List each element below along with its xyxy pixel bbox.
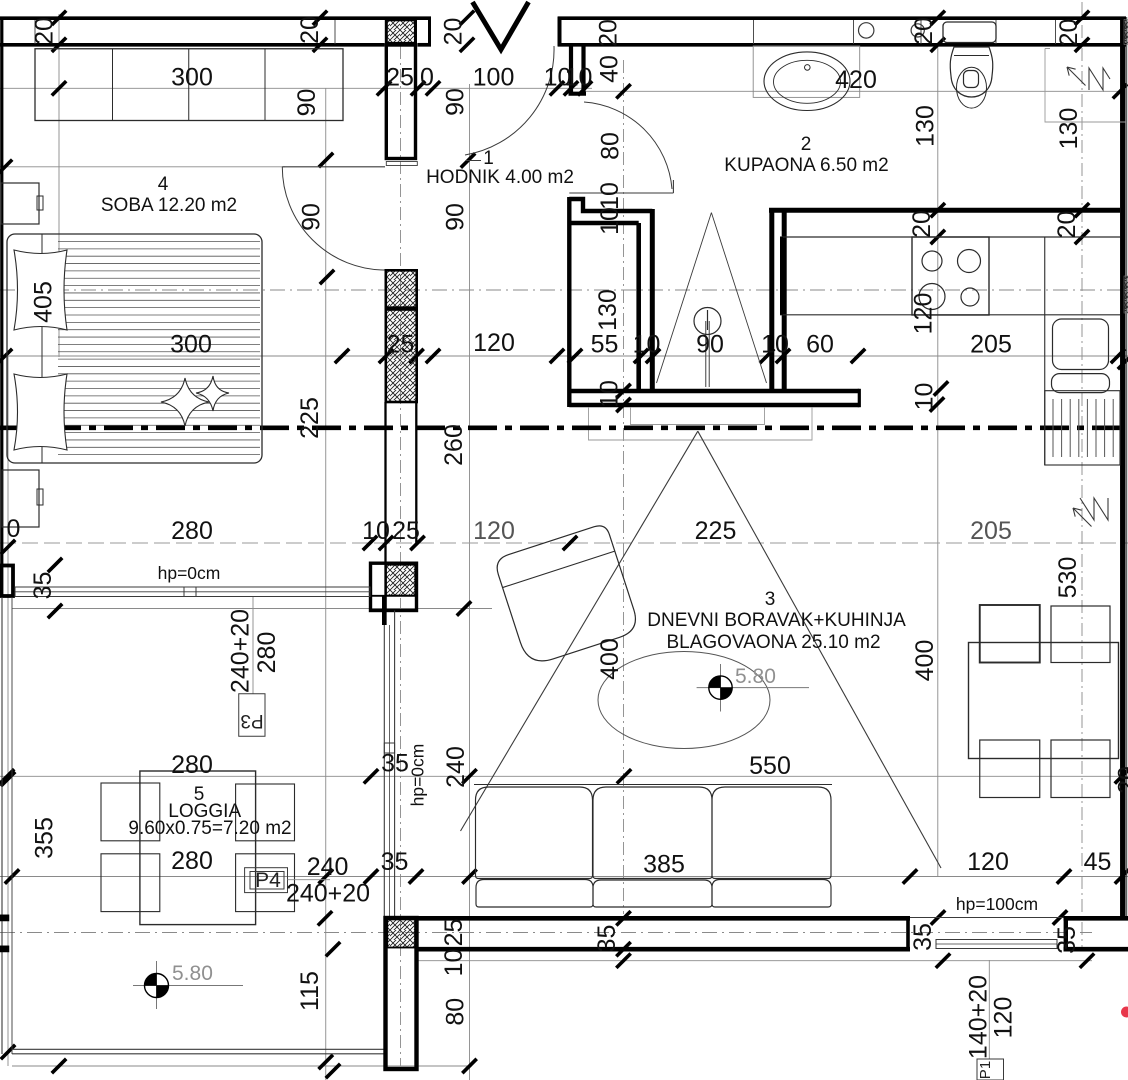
loggia bottom double line	[12, 1048, 384, 1050]
stove burner 3	[919, 284, 945, 310]
ticks dim y=776	[0, 769, 14, 783]
bathroom bottom wall	[769, 208, 1120, 213]
ticks wall 20 bathroom bottom	[931, 203, 945, 217]
dining chair 3	[980, 740, 1040, 798]
svg-text:60: 60	[806, 331, 834, 359]
entrance door swing arc	[465, 46, 554, 155]
svg-text:10: 10	[596, 207, 624, 235]
svg-text:20: 20	[1053, 211, 1081, 239]
shower door triangle	[657, 213, 767, 383]
loggia chair 2	[236, 784, 295, 841]
loggia right window vertical	[383, 611, 385, 917]
loggia corner column block	[371, 563, 417, 610]
svg-text:3: 3	[765, 589, 776, 610]
wall column hatched block 2	[386, 310, 417, 403]
svg-text:P3: P3	[240, 710, 263, 731]
kitchen radiator fins	[1052, 399, 1054, 457]
loggia table	[140, 771, 256, 925]
top exterior wall outer face	[0, 16, 431, 20]
stove burner 2	[958, 250, 981, 273]
svg-text:120: 120	[910, 293, 938, 335]
svg-text:80: 80	[442, 998, 470, 1026]
left vertical dim line x=8	[7, 356, 9, 1066]
bath sink faucet	[805, 65, 811, 71]
svg-text:20: 20	[908, 210, 936, 238]
wall x=784	[782, 208, 787, 391]
bottom wall lower face	[418, 947, 910, 952]
svg-text:0: 0	[7, 515, 21, 543]
toilet bowl inner	[957, 67, 987, 108]
witness line x=937	[937, 46, 939, 877]
right wall insulation hatch mid	[1124, 276, 1128, 313]
sofa cushion 3	[712, 787, 831, 879]
loggia left edge lines	[1, 597, 3, 1054]
witness line x=325	[325, 88, 327, 1080]
label box bottom	[977, 1059, 1004, 1080]
rug ellipse	[598, 652, 770, 749]
svg-text:225: 225	[296, 397, 324, 439]
ticks dim y=543	[363, 536, 377, 550]
dim line y=543	[0, 542, 1128, 544]
centerline horizontal y=932	[0, 932, 1092, 934]
stove	[912, 237, 989, 315]
ticks dim y=88	[52, 81, 66, 95]
svg-text:P4: P4	[255, 869, 281, 892]
grid centerline vertical x=623	[623, 60, 625, 914]
loggia right window mullion	[384, 743, 394, 753]
svg-text:55: 55	[591, 331, 619, 359]
svg-text:280: 280	[253, 632, 281, 674]
svg-text:225: 225	[695, 517, 737, 545]
svg-text:355: 355	[31, 817, 59, 859]
bottom right pier	[1064, 916, 1128, 921]
svg-text:420: 420	[835, 66, 877, 94]
electric symbol top	[1067, 67, 1110, 90]
bed	[7, 234, 262, 463]
svg-text:10: 10	[596, 380, 624, 408]
view cone right line	[698, 431, 941, 868]
top wall hatched segment above column	[386, 20, 415, 44]
svg-text:45: 45	[1084, 848, 1112, 876]
svg-text:205: 205	[970, 331, 1012, 359]
dining chair 2	[1051, 606, 1110, 663]
shower left wall outer face	[650, 209, 655, 391]
svg-text:130: 130	[1055, 108, 1083, 150]
ticks dim y=876	[5, 869, 19, 883]
ticks dim y=356	[0, 349, 12, 363]
parapet band below shower lower face	[569, 403, 859, 408]
left exterior wall	[0, 17, 3, 564]
svg-text:35: 35	[909, 923, 937, 951]
svg-text:20: 20	[1114, 766, 1128, 794]
shower right wall	[769, 208, 774, 391]
kitchen counter top edge	[780, 236, 1120, 238]
witness line x=253 P3 leader	[252, 596, 254, 694]
svg-text:25: 25	[386, 64, 414, 92]
svg-text:HODNIK 4.00 m2: HODNIK 4.00 m2	[426, 167, 574, 188]
window hp=100 sill lines	[910, 917, 1064, 919]
svg-text:400: 400	[911, 640, 939, 682]
svg-text:10: 10	[911, 383, 939, 411]
ticks wall 20 top	[52, 11, 66, 25]
view cone left line	[461, 431, 698, 831]
ticks left dim x=8	[1, 540, 15, 554]
nightstand bottom	[2, 470, 39, 527]
loggia bottom column	[386, 918, 417, 1069]
sofa cushion 2	[593, 787, 712, 879]
loggia chair 4	[236, 854, 295, 912]
svg-text:20: 20	[910, 17, 938, 45]
svg-text:DNEVNI BORAVAK+KUHINJA: DNEVNI BORAVAK+KUHINJA	[647, 610, 906, 631]
svg-text:10: 10	[440, 949, 468, 977]
svg-text:280: 280	[171, 751, 213, 779]
sofa seat 2	[593, 880, 712, 907]
svg-text:120: 120	[990, 997, 1018, 1039]
kitchen counter front edge	[780, 314, 1120, 316]
main dim line y=356	[0, 355, 1128, 357]
svg-text:90: 90	[696, 331, 724, 359]
svg-text:10: 10	[362, 517, 390, 545]
svg-text:25: 25	[387, 331, 415, 359]
vent circle 1 in wall	[859, 23, 874, 38]
armchair	[493, 523, 640, 667]
dim line y=961 bottom sill	[418, 960, 1092, 962]
dim line y=88 top	[0, 87, 592, 89]
ticks wall 35 bottom	[318, 911, 332, 925]
toilet flush	[964, 71, 979, 88]
ticks loggia bottom dim	[52, 1059, 66, 1073]
vent circle 2 in wall	[911, 24, 924, 37]
svg-text:120: 120	[473, 517, 515, 545]
dim line y=91 bathroom	[580, 90, 1122, 92]
svg-text:300: 300	[171, 64, 213, 92]
red watermark dot	[1121, 1007, 1128, 1018]
parapet band end cap	[858, 389, 861, 407]
svg-text:260: 260	[440, 424, 468, 466]
wall column lower double line	[384, 402, 386, 625]
window hp=100 glazing	[936, 940, 1057, 949]
soba door swing arc	[282, 167, 385, 270]
wardrobe	[35, 49, 343, 121]
witness line x=59	[58, 14, 60, 357]
dim line y=1066 loggia bottom	[12, 1065, 472, 1067]
loggia edge dash bar 2	[0, 946, 9, 952]
right wall insulation hatch top	[1124, 20, 1128, 45]
top wall end cap at entrance right	[558, 17, 562, 47]
svg-text:405: 405	[30, 281, 58, 323]
ticks soba door dim	[319, 153, 333, 167]
loggia chair 3	[101, 854, 160, 912]
svg-text:10: 10	[565, 64, 593, 92]
svg-text:120: 120	[967, 848, 1009, 876]
svg-text:hp=0cm: hp=0cm	[158, 563, 221, 583]
ticks wall 10 kitchen	[934, 381, 948, 395]
svg-text:35: 35	[381, 750, 409, 778]
bath sink inner oval	[774, 60, 841, 103]
svg-text:hp=0cm: hp=0cm	[408, 744, 428, 807]
bath sink counter	[753, 46, 860, 97]
svg-text:205: 205	[970, 517, 1012, 545]
label box P3	[239, 694, 265, 737]
electric symbol bottom	[1073, 498, 1108, 527]
svg-text:80: 80	[597, 132, 625, 160]
bathroom door swing arc	[584, 102, 672, 189]
dim line y=776	[0, 775, 1128, 777]
bed headboard line	[41, 234, 43, 463]
bed stripes	[58, 241, 260, 243]
svg-text:130: 130	[912, 105, 940, 147]
svg-text:20: 20	[1055, 19, 1083, 47]
svg-text:P1: P1	[977, 1061, 994, 1079]
svg-text:35: 35	[381, 848, 409, 876]
kitchen sink basin	[1053, 319, 1109, 370]
svg-text:hp=100cm: hp=100cm	[956, 894, 1038, 914]
elevation marker living	[720, 664, 722, 712]
svg-text:385: 385	[643, 851, 685, 879]
kitchen counter left cap	[780, 237, 783, 315]
svg-text:10: 10	[596, 182, 624, 210]
bed star decor	[161, 378, 209, 426]
dim line y=876	[0, 876, 1128, 878]
ticks window hp100	[931, 910, 945, 924]
svg-text:20: 20	[440, 18, 468, 46]
sofa cushion 1	[476, 787, 593, 879]
dim line y=166 soba door	[0, 166, 285, 168]
label box P4	[245, 868, 288, 893]
svg-text:0: 0	[420, 64, 434, 92]
loggia chair 1	[101, 783, 160, 841]
top wall end cap at entrance left	[428, 17, 431, 47]
svg-text:2: 2	[801, 134, 812, 155]
loggia edge dash bar 1	[0, 915, 9, 921]
loggia window frame edge thick	[382, 595, 386, 625]
svg-text:35: 35	[1053, 926, 1081, 954]
svg-text:90: 90	[293, 89, 321, 117]
sofa back line	[474, 784, 832, 786]
dim line y=608	[12, 608, 492, 610]
svg-text:130: 130	[594, 289, 622, 331]
sofa seat 1	[476, 880, 593, 908]
svg-text:115: 115	[296, 971, 324, 1011]
svg-text:280: 280	[171, 847, 213, 875]
svg-text:400: 400	[596, 638, 624, 680]
svg-text:1: 1	[483, 148, 494, 169]
room label 1 leader	[466, 160, 481, 162]
soba window hp=0 band	[15, 587, 370, 597]
toilet cistern	[943, 22, 996, 43]
entrance V symbol	[473, 2, 529, 50]
section line bold dash-dot y=428	[0, 425, 1128, 430]
svg-text:10: 10	[761, 331, 789, 359]
svg-text:530: 530	[1054, 557, 1082, 599]
elevation marker loggia	[156, 961, 158, 1009]
dining table	[969, 643, 1119, 759]
svg-text:20: 20	[31, 17, 59, 45]
right exterior wall	[1120, 17, 1126, 917]
svg-text:20: 20	[296, 16, 324, 44]
svg-text:BLAGOVAONA 25.10 m2: BLAGOVAONA 25.10 m2	[666, 632, 880, 653]
svg-text:300: 300	[170, 331, 212, 359]
svg-text:140+20: 140+20	[965, 975, 993, 1059]
svg-text:KUPAONA 6.50 m2: KUPAONA 6.50 m2	[724, 155, 888, 176]
pillow 1	[14, 250, 67, 330]
toilet bowl	[950, 47, 993, 97]
shower head	[694, 308, 721, 335]
svg-text:90: 90	[442, 203, 470, 231]
svg-text:280: 280	[171, 517, 213, 545]
svg-text:SOBA 12.20 m2: SOBA 12.20 m2	[101, 195, 237, 216]
centerline horizontal y=290	[0, 289, 1128, 291]
ticks wall 10 left of shower	[616, 384, 630, 398]
svg-text:25: 25	[440, 919, 468, 947]
svg-text:90: 90	[298, 203, 326, 231]
svg-text:25: 25	[392, 517, 420, 545]
dining chair 1	[980, 605, 1040, 663]
svg-text:35: 35	[29, 572, 57, 600]
svg-text:9.60x0.75=7.20 m2: 9.60x0.75=7.20 m2	[128, 818, 291, 839]
wall column hatched block 1	[386, 270, 417, 307]
slab edge below wall gray	[589, 407, 813, 440]
bathroom entry jog wall	[569, 199, 652, 211]
svg-text:100: 100	[473, 64, 515, 92]
stove burner 1	[922, 251, 942, 271]
stove burner 4	[961, 288, 979, 306]
top wall joint lines	[34, 20, 36, 44]
svg-text:240: 240	[442, 746, 470, 788]
bottom wall upper face	[418, 916, 910, 921]
svg-text:10: 10	[633, 331, 661, 359]
top exterior wall inner face	[0, 43, 385, 47]
kitchen sink drainer	[1052, 374, 1110, 393]
bottom wall left cap	[906, 916, 910, 952]
soba window mullion	[184, 587, 196, 597]
left wall corner block at loggia	[2, 566, 14, 597]
dining chair 4	[1051, 740, 1110, 798]
shower left wall inner face	[636, 223, 641, 391]
svg-text:5.80: 5.80	[735, 665, 776, 688]
ticks dim y=608	[48, 558, 62, 572]
svg-text:240+20: 240+20	[286, 880, 370, 908]
ticks dim y=91	[616, 84, 630, 98]
witness line x=469	[469, 84, 471, 1080]
bathroom niche gray box right	[1045, 49, 1126, 123]
nightstand top	[1, 183, 39, 224]
svg-text:35: 35	[593, 925, 621, 953]
sofa seat 3	[712, 880, 831, 908]
soba door threshold	[386, 162, 417, 166]
svg-text:120: 120	[473, 329, 515, 357]
grid centerline vertical x=400	[400, 46, 402, 1066]
ticks right pier	[1115, 769, 1128, 783]
svg-text:550: 550	[749, 752, 791, 780]
soba door leaf	[282, 166, 385, 168]
bathroom door leaf	[569, 192, 673, 194]
svg-text:4: 4	[158, 174, 169, 195]
svg-text:240: 240	[307, 853, 349, 881]
kitchen counter joint	[1044, 237, 1046, 465]
entrance door frame posts	[569, 46, 573, 94]
svg-text:240+20: 240+20	[227, 609, 255, 693]
wall column x=385-417 upper part	[386, 45, 415, 159]
svg-text:40: 40	[596, 55, 624, 83]
svg-text:20: 20	[595, 19, 623, 47]
svg-text:5.80: 5.80	[172, 962, 213, 985]
grid centerline vertical x=1082	[1081, 2, 1083, 950]
kitchen radiator box	[1045, 391, 1120, 465]
pillow 2	[14, 374, 67, 450]
svg-text:90: 90	[442, 88, 470, 116]
parapet band below shower upper face	[569, 389, 859, 394]
witness line x=989 bottom	[988, 960, 990, 1060]
bath sink outer oval	[764, 52, 850, 111]
